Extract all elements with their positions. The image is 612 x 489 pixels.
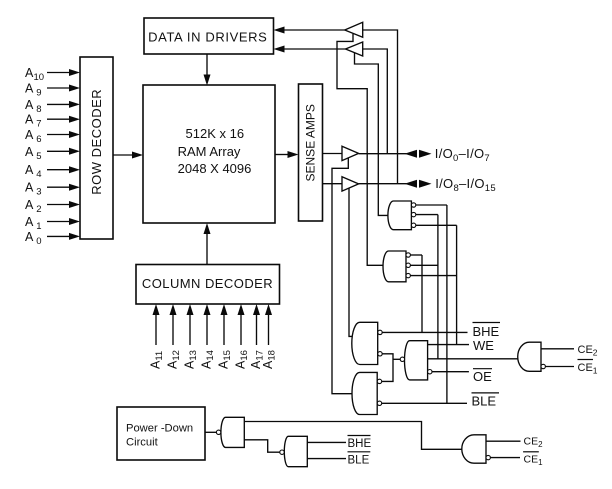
svg-text:6: 6 <box>36 134 41 145</box>
svg-text:A: A <box>25 98 34 112</box>
svg-text:A: A <box>25 181 34 195</box>
svg-text:512K x 16: 512K x 16 <box>186 126 245 141</box>
svg-text:A: A <box>25 215 34 229</box>
svg-text:WE: WE <box>473 338 494 353</box>
svg-text:5: 5 <box>36 151 41 162</box>
svg-text:9: 9 <box>36 88 41 99</box>
svg-text:BLE: BLE <box>472 394 497 409</box>
svg-text:3: 3 <box>36 187 41 198</box>
svg-text:Power -Down: Power -Down <box>126 423 193 435</box>
svg-text:8: 8 <box>36 104 41 115</box>
svg-text:0: 0 <box>36 236 41 247</box>
svg-text:A: A <box>25 113 34 127</box>
svg-text:DATA IN DRIVERS: DATA IN DRIVERS <box>148 29 267 44</box>
svg-text:BHE: BHE <box>348 438 372 450</box>
svg-text:Circuit: Circuit <box>126 437 159 449</box>
svg-text:10: 10 <box>34 72 45 83</box>
svg-text:2: 2 <box>36 204 41 215</box>
svg-text:A: A <box>25 82 34 96</box>
svg-text:2048 X 4096: 2048 X 4096 <box>178 161 252 176</box>
svg-text:ROW DECODER: ROW DECODER <box>89 89 104 195</box>
svg-text:BLE: BLE <box>348 455 370 467</box>
svg-text:A: A <box>25 145 34 159</box>
svg-text:A: A <box>25 198 34 212</box>
svg-text:7: 7 <box>36 119 41 130</box>
svg-text:OE: OE <box>473 369 492 384</box>
svg-text:SENSE AMPS: SENSE AMPS <box>303 104 317 181</box>
svg-text:A: A <box>25 230 34 244</box>
svg-text:A: A <box>25 128 34 142</box>
svg-text:BHE: BHE <box>473 324 500 339</box>
svg-text:1: 1 <box>36 221 41 232</box>
svg-text:A: A <box>25 163 34 177</box>
svg-text:4: 4 <box>36 169 41 180</box>
svg-text:COLUMN DECODER: COLUMN DECODER <box>142 276 273 291</box>
svg-text:RAM Array: RAM Array <box>178 144 241 159</box>
